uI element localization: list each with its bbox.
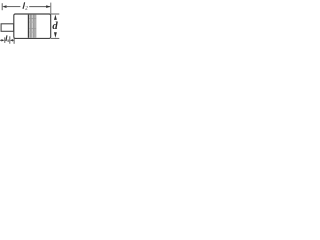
tool bit rectangle — [1, 24, 14, 32]
knurl mottling streaks — [29, 18, 36, 20]
knurl groove line — [28, 15, 30, 38]
label l1 — [5, 35, 8, 41]
dimension d bottom extension bar — [51, 37, 60, 39]
knurl line 2 — [29, 15, 31, 38]
dimension l2 right extension line — [50, 3, 52, 14]
svg-text:d: d — [52, 21, 58, 32]
svg-text:2: 2 — [25, 6, 28, 12]
knurl line 3 — [31, 15, 33, 38]
dimension l1 outer extension line — [13, 37, 15, 44]
dimension l2 line right segment — [29, 6, 50, 8]
dimension l1 line left tail — [0, 39, 2, 41]
dimension l1 right tail — [13, 39, 15, 41]
dimension d down arrowhead — [54, 32, 57, 38]
dimension l1 left arrowhead — [1, 39, 4, 41]
dimension l2 left arrowhead — [2, 5, 6, 8]
knurl line 6 — [35, 15, 37, 38]
dimension l1 right extension line — [9, 36, 11, 43]
dimension d up arrowhead — [54, 15, 57, 20]
dimension l1 left extension line — [4, 37, 6, 43]
dimension l1 right arrowhead — [10, 39, 13, 41]
dimension l2 left extension line — [1, 3, 3, 10]
dimension l2 line left segment — [6, 6, 21, 8]
dimension l2 right arrowhead — [46, 5, 50, 8]
knurl line 4 — [32, 15, 34, 38]
dimension d top extension bar — [51, 13, 60, 15]
label l2 — [23, 2, 25, 9]
knurl line 5 — [34, 15, 36, 38]
tool body rectangle — [14, 14, 51, 38]
